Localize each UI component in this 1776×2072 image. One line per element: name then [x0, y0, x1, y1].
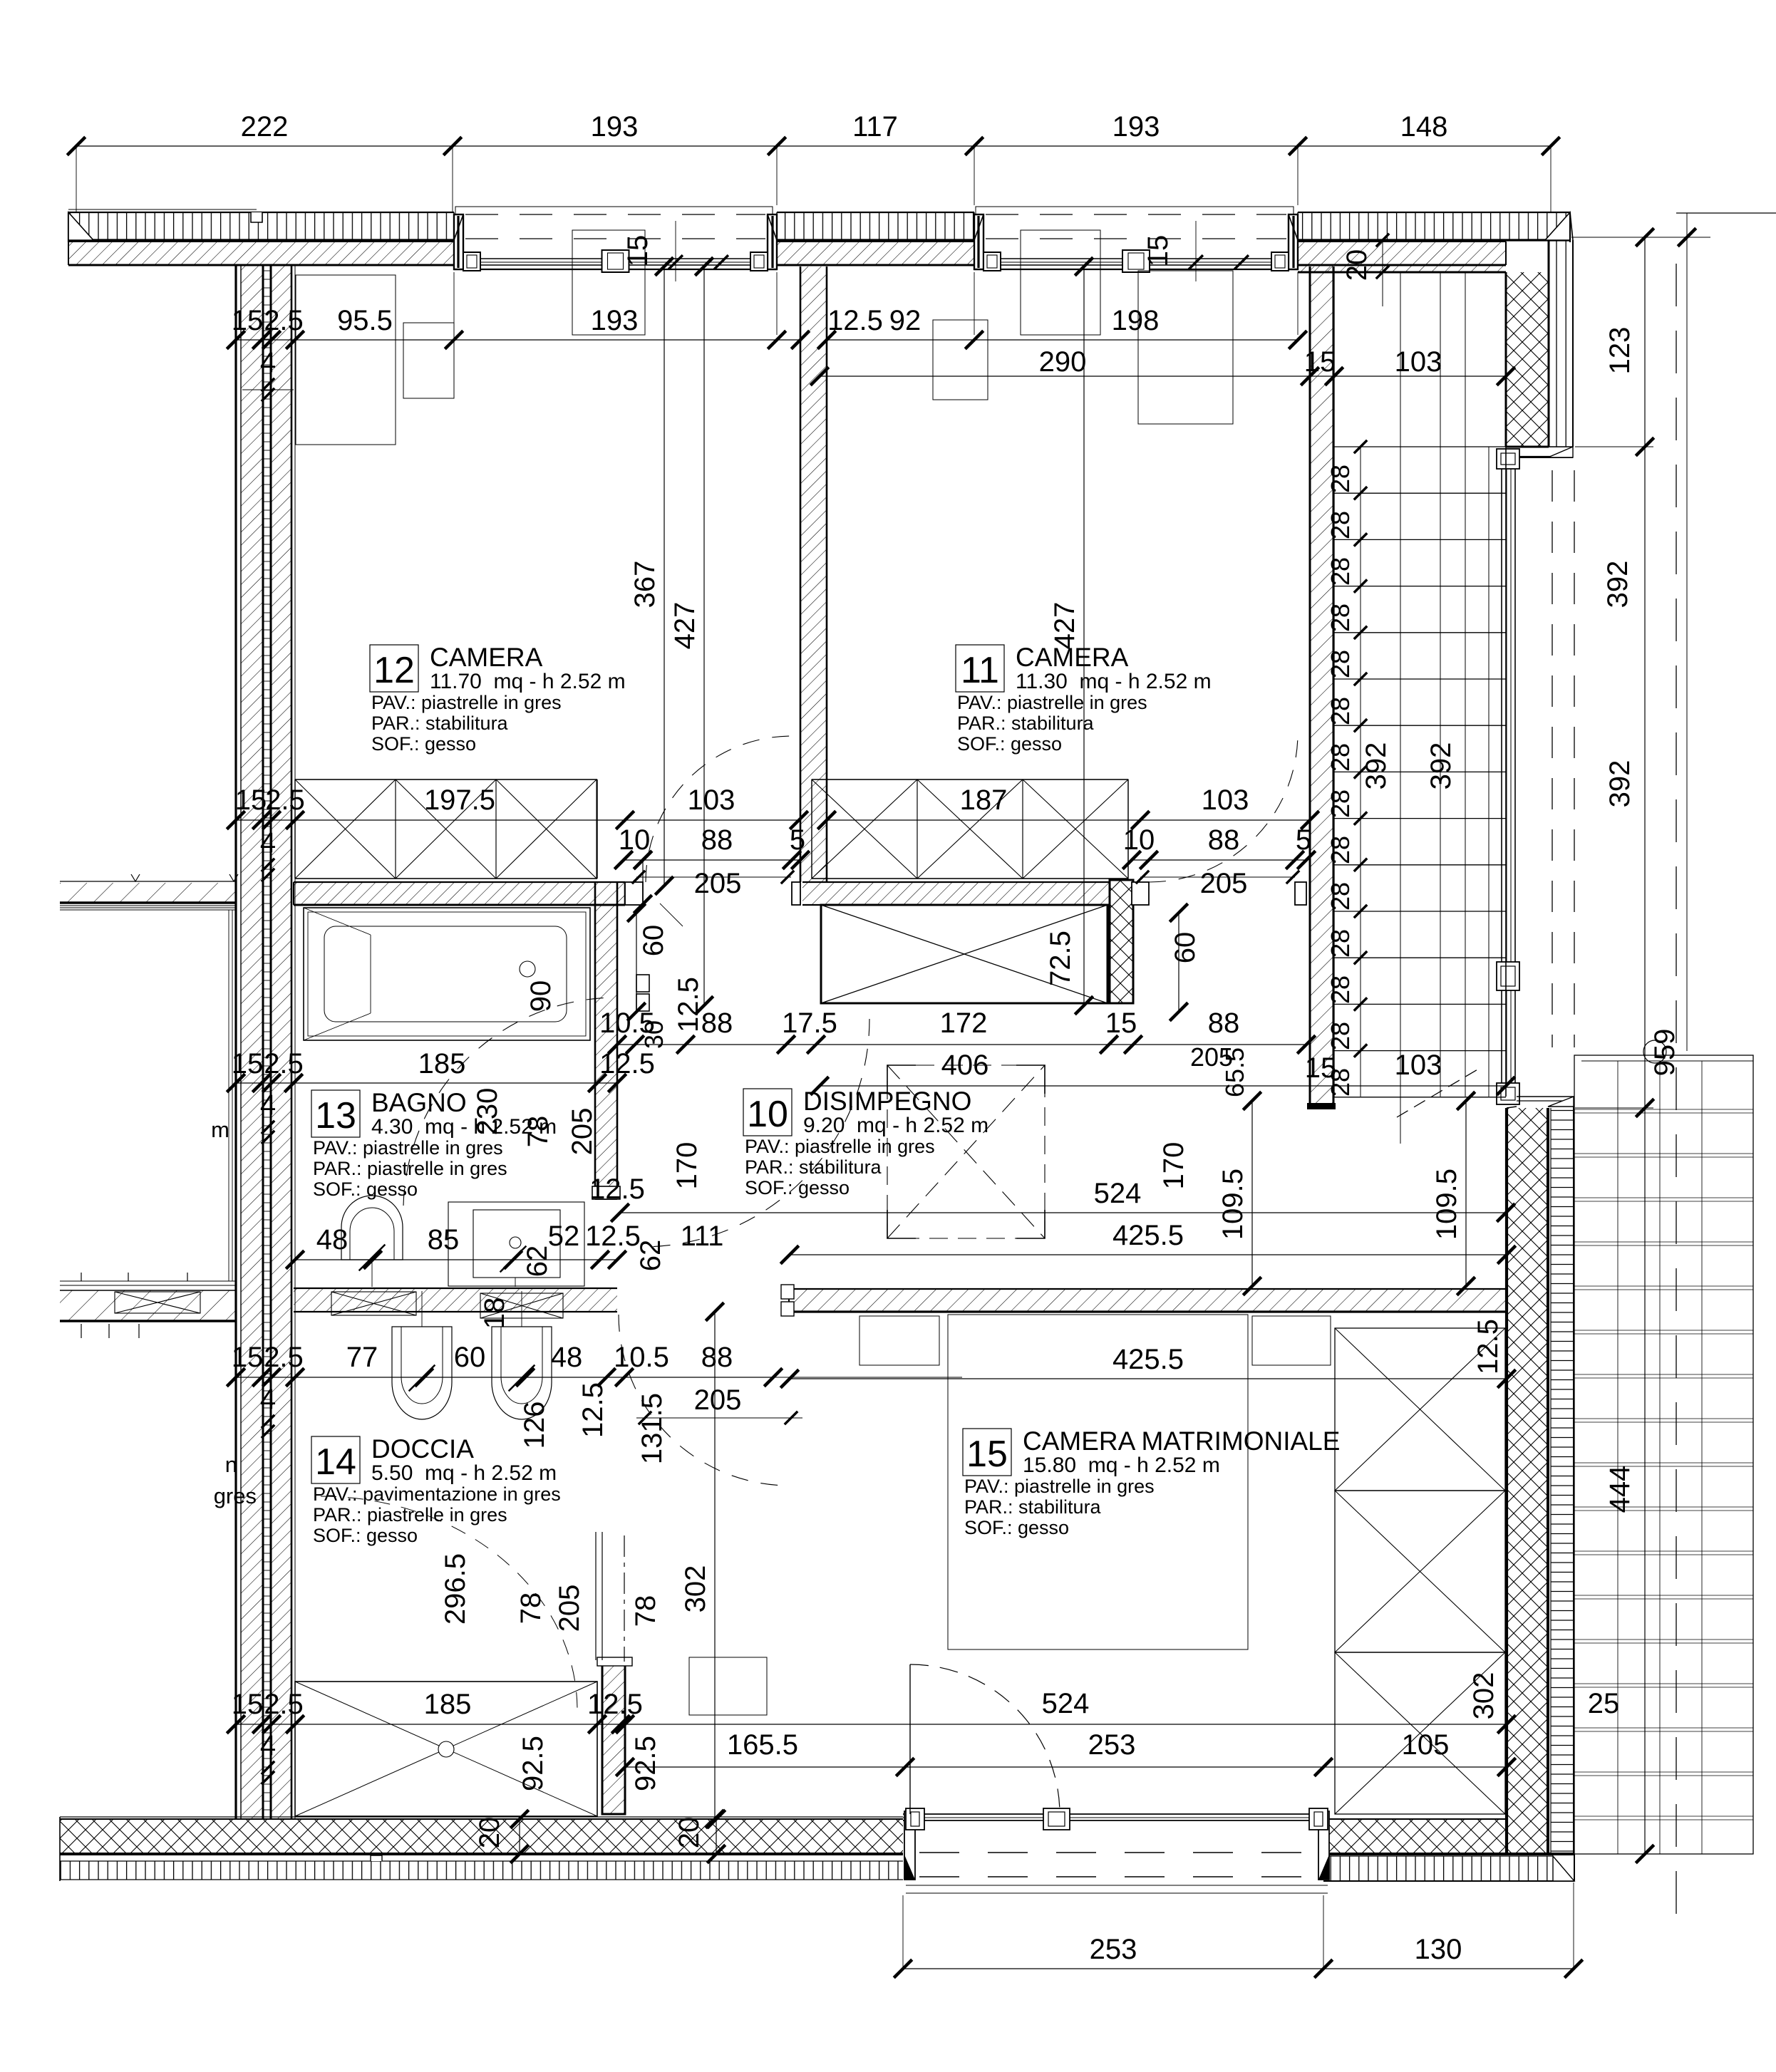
- corridor door jambs to doccia: [636, 975, 649, 992]
- 524 row: [620, 1212, 1506, 1213]
- wardrobe camera 12: [295, 779, 597, 780]
- landing dim 20: [1382, 240, 1383, 306]
- doccia fixture dim row: [236, 1377, 773, 1378]
- svg-text:CAMERA: CAMERA: [1016, 643, 1129, 672]
- shaft row dims: [617, 1044, 1306, 1045]
- right wall top section outer tick band: [1549, 240, 1573, 447]
- camera matr. entry door swing (dashed): [619, 1315, 790, 1486]
- svg-text:123: 123: [1604, 327, 1636, 375]
- svg-text:30: 30: [639, 1020, 668, 1049]
- svg-text:15: 15: [966, 1434, 1008, 1475]
- svg-text:198: 198: [1112, 305, 1160, 336]
- svg-text:2.5: 2.5: [264, 305, 304, 336]
- svg-text:25: 25: [1588, 1688, 1620, 1719]
- svg-text:10: 10: [619, 824, 651, 856]
- svg-text:PAR.: stabilitura: PAR.: stabilitura: [745, 1156, 882, 1178]
- svg-text:CAMERA: CAMERA: [430, 643, 543, 672]
- glazing bottom return: [1517, 1097, 1574, 1107]
- svg-text:296.5: 296.5: [440, 1553, 471, 1625]
- svg-text:SOF.: gesso: SOF.: gesso: [313, 1525, 418, 1546]
- wardrobe camera 11: [812, 779, 1128, 780]
- svg-text:DOCCIA: DOCCIA: [371, 1434, 474, 1464]
- svg-text:28: 28: [1326, 465, 1355, 493]
- svg-text:PAR.: piastrelle in gres: PAR.: piastrelle in gres: [313, 1158, 507, 1179]
- wardrobe dim row camera 12: [236, 819, 799, 821]
- svg-text:193: 193: [1112, 111, 1160, 143]
- staircase treads: [1334, 446, 1506, 447]
- wall south of camera 12 (bagno north wall): [294, 882, 625, 905]
- svg-text:18: 18: [479, 1297, 510, 1330]
- interior wall between camera 12 and camera 11: [800, 266, 827, 882]
- window: jamb bars + miter: [454, 214, 463, 269]
- label camera 12: [370, 645, 418, 692]
- svg-text:253: 253: [1088, 1729, 1136, 1761]
- bagno door swing (dashed): [403, 998, 611, 1206]
- svg-text:28: 28: [1326, 604, 1355, 632]
- svg-text:SOF.: gesso: SOF.: gesso: [745, 1177, 850, 1198]
- svg-text:302: 302: [1468, 1672, 1499, 1720]
- left neighbour wall stub upper: [60, 883, 236, 903]
- shower tray: [295, 1682, 597, 1816]
- svg-text:2.5: 2.5: [264, 1689, 304, 1720]
- bagno 185 row: [236, 1082, 617, 1084]
- top wall inner leaf (hatched), 3 solid segments between windows: [68, 242, 454, 265]
- doccia internal swing (dashed): [321, 1496, 577, 1710]
- svg-text:48: 48: [551, 1342, 583, 1373]
- svg-text:15: 15: [232, 305, 264, 336]
- bottom wall cross-hatch band east part (under window to wall): [1323, 1819, 1507, 1854]
- svg-text:60: 60: [454, 1342, 486, 1373]
- svg-text:2.5: 2.5: [265, 784, 305, 816]
- svg-text:117: 117: [852, 111, 898, 143]
- svg-text:103: 103: [1395, 1050, 1442, 1081]
- svg-text:PAR.: stabilitura: PAR.: stabilitura: [957, 713, 1095, 734]
- svg-text:148: 148: [1400, 111, 1448, 143]
- furniture camera 12: bed + nightstand + desk: [296, 275, 396, 445]
- bottom wall cross-hatch band west part: [60, 1819, 903, 1854]
- bagno east wall: [595, 905, 617, 1199]
- window: frame blocks left/centre/right: [983, 252, 1001, 271]
- svg-text:28: 28: [1326, 1022, 1355, 1050]
- left exterior double wall: [228, 910, 229, 1281]
- svg-text:72.5: 72.5: [1045, 931, 1076, 986]
- svg-text:88: 88: [701, 824, 733, 856]
- svg-text:193: 193: [591, 305, 639, 336]
- svg-text:959: 959: [1649, 1029, 1681, 1077]
- svg-text:PAV.: piastrelle in gres: PAV.: piastrelle in gres: [957, 692, 1147, 713]
- svg-text:15: 15: [232, 1689, 264, 1720]
- door dim row camera 12: [643, 859, 800, 861]
- camera 11 door swing: [1149, 733, 1298, 882]
- dashed overhang lines right of stairs: [1552, 470, 1553, 1047]
- svg-text:15: 15: [1142, 235, 1174, 267]
- svg-text:205: 205: [694, 868, 742, 899]
- 109.5 verticals: [1251, 1101, 1253, 1286]
- top exterior wall: outer insulation band with tick hatch: [68, 209, 257, 210]
- svg-text:170: 170: [671, 1142, 703, 1190]
- svg-text:BAGNO: BAGNO: [371, 1088, 467, 1117]
- svg-text:gres: gres: [214, 1483, 257, 1508]
- svg-text:48: 48: [316, 1224, 349, 1255]
- disimpegno south wall (camera matrimoniale north wall): [793, 1289, 1507, 1312]
- svg-text:88: 88: [1208, 1007, 1240, 1039]
- doccia twin basins: [392, 1327, 452, 1419]
- pier south (doccia/camera matr.): [602, 1664, 625, 1814]
- bagno fixture dim row: [295, 1259, 617, 1260]
- svg-text:88: 88: [701, 1007, 733, 1039]
- thin partition above pier: [595, 1532, 597, 1660]
- doccia door swing from corridor (dashed): [641, 1019, 869, 1247]
- door jamb left door (camera 12): [625, 882, 643, 905]
- svg-text:PAR.: piastrelle in gres: PAR.: piastrelle in gres: [313, 1504, 507, 1525]
- furniture camera 11: bed + nightstand + desk: [1138, 271, 1233, 424]
- svg-text:n: n: [225, 1452, 237, 1477]
- svg-text:4: 4: [260, 1730, 276, 1761]
- svg-text:88: 88: [701, 1342, 733, 1373]
- svg-text:15.80 mq - h 2.52 m: 15.80 mq - h 2.52 m: [1023, 1454, 1220, 1477]
- svg-text:28: 28: [1326, 650, 1355, 678]
- svg-text:65.5: 65.5: [1220, 1047, 1249, 1097]
- svg-text:9.20 mq - h 2.52 m: 9.20 mq - h 2.52 m: [803, 1114, 988, 1137]
- right side vertical dims: [1644, 237, 1646, 1854]
- svg-text:15: 15: [232, 1342, 264, 1373]
- dimension row 2 (inside top): [236, 339, 800, 341]
- label camera matrimoniale 15: [963, 1429, 1011, 1476]
- svg-text:105: 105: [1402, 1729, 1450, 1761]
- svg-text:4: 4: [260, 1089, 276, 1121]
- svg-text:2.5: 2.5: [264, 1342, 304, 1373]
- furniture camera 15: bed + nightstands + cabinet: [948, 1315, 1248, 1649]
- svg-text:392: 392: [1604, 760, 1636, 808]
- svg-text:20: 20: [673, 1817, 705, 1849]
- svg-text:12.5: 12.5: [585, 1221, 641, 1252]
- wall between bagno and doccia: [294, 1288, 617, 1312]
- svg-text:PAV.: piastrelle in gres: PAV.: piastrelle in gres: [313, 1137, 503, 1159]
- label doccia 14: [311, 1436, 360, 1483]
- wardrobe camera matrimoniale: [1335, 1328, 1505, 1491]
- svg-text:15: 15: [1304, 346, 1336, 378]
- svg-text:185: 185: [424, 1689, 472, 1720]
- wall south of camera 11 above shaft: [802, 882, 1109, 905]
- svg-text:4.30 mq - h 2.52 m: 4.30 mq - h 2.52 m: [371, 1115, 557, 1139]
- svg-text:126: 126: [519, 1402, 550, 1449]
- window: dashed glazing lines: [986, 214, 1286, 215]
- svg-text:130: 130: [1415, 1934, 1462, 1965]
- svg-text:78: 78: [630, 1595, 661, 1627]
- shaft / cavedio x-box: [821, 905, 1108, 1003]
- top-right neighbour outline: [1676, 212, 1776, 214]
- terrace east outline + paving grid: [1574, 1055, 1753, 1854]
- WC bagno: [341, 1196, 403, 1260]
- svg-text:60: 60: [638, 925, 669, 957]
- svg-text:131.5: 131.5: [636, 1393, 668, 1464]
- pier (cross-hatch) right of shaft: [1110, 880, 1133, 1003]
- svg-text:11.30 mq - h 2.52 m: 11.30 mq - h 2.52 m: [1016, 670, 1212, 693]
- svg-text:524: 524: [1042, 1688, 1090, 1719]
- washbasin bagno: [448, 1202, 584, 1286]
- svg-text:103: 103: [688, 784, 735, 816]
- svg-text:103: 103: [1202, 784, 1249, 816]
- svg-text:2.5: 2.5: [264, 1048, 304, 1079]
- svg-text:5: 5: [1296, 824, 1311, 856]
- svg-text:11: 11: [961, 650, 999, 691]
- door dim row camera 11: [1132, 859, 1306, 861]
- dimension 290/15/103 row: [820, 375, 1506, 377]
- svg-text:11.70 mq - h 2.52 m: 11.70 mq - h 2.52 m: [430, 670, 626, 693]
- camera 12 door swing: [646, 736, 792, 882]
- sliding door axis dash-dot: [624, 1535, 625, 1662]
- ceiling opening dash-dot box: [887, 1065, 1045, 1238]
- svg-text:92.5: 92.5: [517, 1736, 549, 1791]
- svg-text:4: 4: [260, 827, 276, 859]
- door jambs right door (camera 11): [1132, 882, 1149, 905]
- right wall bottom section: cross-hatch + tick band: [1507, 1108, 1548, 1854]
- svg-text:392: 392: [1425, 742, 1457, 790]
- left neighbour wall stub lower (x-box): [60, 1280, 236, 1282]
- svg-text:12.5: 12.5: [1472, 1319, 1504, 1374]
- svg-text:78: 78: [515, 1592, 547, 1625]
- svg-text:15: 15: [622, 235, 654, 267]
- svg-text:88: 88: [1208, 824, 1240, 856]
- stair stringer verticals: [1360, 447, 1361, 1097]
- svg-text:12.5: 12.5: [673, 977, 704, 1032]
- svg-text:109.5: 109.5: [1431, 1169, 1462, 1240]
- svg-text:28: 28: [1326, 697, 1355, 725]
- svg-text:m: m: [211, 1117, 229, 1142]
- svg-text:28: 28: [1326, 836, 1355, 864]
- svg-text:10: 10: [747, 1094, 788, 1135]
- stair wall (west side of staircase): [1310, 266, 1333, 1107]
- x-box sections in bagno/doccia wall: [331, 1292, 416, 1315]
- svg-text:15: 15: [235, 784, 267, 816]
- label camera 11: [956, 645, 1004, 692]
- 20 dims on bottom wall: [519, 1819, 520, 1854]
- doccia bottom dim rows: [236, 1724, 625, 1725]
- label bagno 13: [311, 1090, 360, 1137]
- balcony window-door south wall: [903, 1813, 1323, 1815]
- svg-text:92.5: 92.5: [630, 1736, 661, 1791]
- svg-text:103: 103: [1395, 346, 1442, 378]
- svg-text:205: 205: [554, 1585, 585, 1632]
- svg-text:111: 111: [681, 1221, 724, 1252]
- right wall top section cross-hatch: [1506, 272, 1549, 447]
- svg-text:15: 15: [1305, 1052, 1337, 1084]
- svg-text:425.5: 425.5: [1112, 1220, 1184, 1251]
- svg-text:12.5: 12.5: [577, 1382, 609, 1438]
- svg-text:205: 205: [694, 1384, 742, 1416]
- svg-text:185: 185: [418, 1048, 466, 1079]
- svg-text:13: 13: [315, 1095, 356, 1136]
- svg-text:5: 5: [790, 824, 805, 856]
- svg-text:12.5: 12.5: [587, 1689, 643, 1720]
- svg-text:28: 28: [1326, 511, 1355, 539]
- svg-text:15: 15: [232, 1048, 264, 1079]
- svg-text:PAV.: pavimentazione in gres: PAV.: pavimentazione in gres: [313, 1483, 561, 1505]
- balcony door leaf + swing: [909, 1664, 911, 1814]
- svg-text:12: 12: [373, 650, 415, 691]
- 524 bottom row: [621, 1724, 1507, 1725]
- svg-text:PAR.: stabilitura: PAR.: stabilitura: [964, 1496, 1102, 1518]
- svg-text:4: 4: [260, 1384, 276, 1415]
- svg-text:PAR.: stabilitura: PAR.: stabilitura: [371, 713, 509, 734]
- svg-text:392: 392: [1361, 742, 1392, 790]
- bottom-right outer tick band below terrace edge: [1323, 1856, 1553, 1881]
- svg-text:406: 406: [941, 1050, 989, 1081]
- svg-text:SOF.: gesso: SOF.: gesso: [371, 733, 476, 755]
- 406 row: [820, 1085, 1506, 1087]
- vertical dims cameras: [664, 266, 665, 886]
- svg-text:28: 28: [1326, 789, 1355, 818]
- svg-text:SOF.: gesso: SOF.: gesso: [957, 733, 1062, 755]
- 425.5 rows: [790, 1254, 1507, 1255]
- extension lines from window jambs down to row 2: [453, 272, 455, 335]
- svg-text:PAV.: piastrelle in gres: PAV.: piastrelle in gres: [964, 1476, 1155, 1497]
- svg-text:10.5: 10.5: [614, 1342, 669, 1373]
- dimension row top: [76, 145, 1551, 147]
- svg-text:92: 92: [889, 305, 921, 336]
- svg-text:60: 60: [1170, 932, 1201, 964]
- svg-text:222: 222: [241, 111, 289, 143]
- bagno door jamb boxes: [592, 1186, 620, 1199]
- svg-text:5.50 mq - h 2.52 m: 5.50 mq - h 2.52 m: [371, 1461, 557, 1485]
- window: dashed glazing lines: [465, 214, 765, 215]
- svg-text:367: 367: [629, 561, 661, 608]
- svg-text:187: 187: [960, 784, 1008, 816]
- svg-text:12.5: 12.5: [589, 1174, 645, 1205]
- svg-text:20: 20: [474, 1817, 505, 1849]
- svg-text:PAV.: piastrelle in gres: PAV.: piastrelle in gres: [745, 1136, 935, 1157]
- svg-text:165.5: 165.5: [727, 1729, 798, 1761]
- svg-text:85: 85: [428, 1224, 460, 1255]
- svg-text:425.5: 425.5: [1112, 1344, 1184, 1375]
- svg-text:SOF.: gesso: SOF.: gesso: [964, 1517, 1069, 1538]
- svg-text:CAMERA MATRIMONIALE: CAMERA MATRIMONIALE: [1023, 1426, 1340, 1456]
- window: glass triple lines: [983, 258, 1289, 259]
- svg-text:95.5: 95.5: [337, 305, 393, 336]
- svg-text:290: 290: [1039, 346, 1087, 378]
- svg-text:62: 62: [635, 1240, 666, 1272]
- horizontal extension at y333: [1571, 237, 1710, 238]
- svg-text:90: 90: [525, 980, 557, 1012]
- svg-text:197.5: 197.5: [424, 784, 495, 816]
- svg-text:14: 14: [315, 1441, 356, 1483]
- svg-text:205: 205: [1200, 868, 1248, 899]
- svg-text:77: 77: [346, 1342, 378, 1373]
- svg-text:444: 444: [1604, 1466, 1636, 1513]
- svg-text:524: 524: [1094, 1178, 1142, 1209]
- svg-text:4: 4: [260, 347, 276, 378]
- label disimpegno 10: [743, 1089, 792, 1136]
- svg-text:20: 20: [1341, 249, 1373, 281]
- bathtub: [304, 908, 590, 1040]
- right wall top: bottom return: [1517, 447, 1573, 457]
- svg-text:SOF.: gesso: SOF.: gesso: [313, 1179, 418, 1200]
- svg-text:17.5: 17.5: [782, 1007, 837, 1039]
- svg-text:28: 28: [1326, 882, 1355, 911]
- jamb boxes west end: [781, 1285, 794, 1299]
- svg-text:28: 28: [1326, 557, 1355, 586]
- svg-text:170: 170: [1158, 1142, 1189, 1190]
- wardrobe dim row camera 11: [827, 819, 1310, 821]
- svg-text:253: 253: [1090, 1934, 1137, 1965]
- svg-text:392: 392: [1602, 561, 1633, 608]
- svg-text:427: 427: [669, 602, 701, 650]
- svg-text:302: 302: [680, 1565, 711, 1613]
- bottom wall outer tick band: [60, 1861, 903, 1880]
- svg-text:205: 205: [567, 1108, 598, 1156]
- svg-text:12.5: 12.5: [599, 1048, 655, 1079]
- stair break line (dashed): [1397, 1069, 1479, 1117]
- svg-text:109.5: 109.5: [1217, 1169, 1249, 1240]
- window: outer reveal thin rect: [976, 207, 1294, 269]
- window jambs + miter triangles: [904, 1811, 915, 1880]
- svg-text:10: 10: [1123, 824, 1155, 856]
- svg-text:PAV.: piastrelle in gres: PAV.: piastrelle in gres: [371, 692, 562, 713]
- window: jamb bars + miter: [974, 214, 983, 269]
- svg-text:52: 52: [548, 1221, 580, 1252]
- svg-text:28: 28: [1326, 743, 1355, 772]
- staircase window wall (glazing): [1501, 467, 1502, 1084]
- svg-text:172: 172: [940, 1007, 988, 1039]
- window: outer reveal thin rect: [455, 207, 773, 269]
- svg-text:15: 15: [1105, 1007, 1137, 1039]
- bottom row 253/130: [903, 1968, 1574, 1969]
- window: glass triple lines: [463, 258, 768, 259]
- svg-text:28: 28: [1326, 929, 1355, 958]
- stair going dim ticks + 28 labels: [1354, 440, 1367, 453]
- window: frame blocks left/centre/right: [463, 252, 480, 271]
- svg-text:DISIMPEGNO: DISIMPEGNO: [803, 1087, 971, 1116]
- svg-text:193: 193: [591, 111, 639, 143]
- long dashed boundary line: [1676, 264, 1677, 1924]
- svg-text:28: 28: [1326, 975, 1355, 1004]
